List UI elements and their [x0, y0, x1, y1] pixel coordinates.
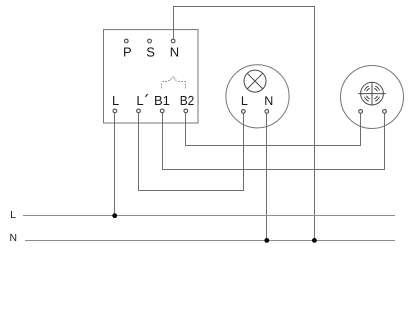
- svg-text:L: L: [112, 93, 119, 108]
- svg-text:N: N: [170, 44, 179, 59]
- svg-text:B1: B1: [154, 93, 170, 108]
- svg-text:N: N: [264, 94, 273, 108]
- svg-text:L: L: [241, 94, 248, 108]
- svg-text:B2: B2: [180, 93, 195, 108]
- svg-text:L: L: [136, 93, 143, 108]
- svg-text:N: N: [10, 233, 18, 244]
- svg-text:S: S: [146, 44, 155, 59]
- svg-text:L: L: [10, 210, 16, 221]
- svg-text:P: P: [123, 44, 132, 59]
